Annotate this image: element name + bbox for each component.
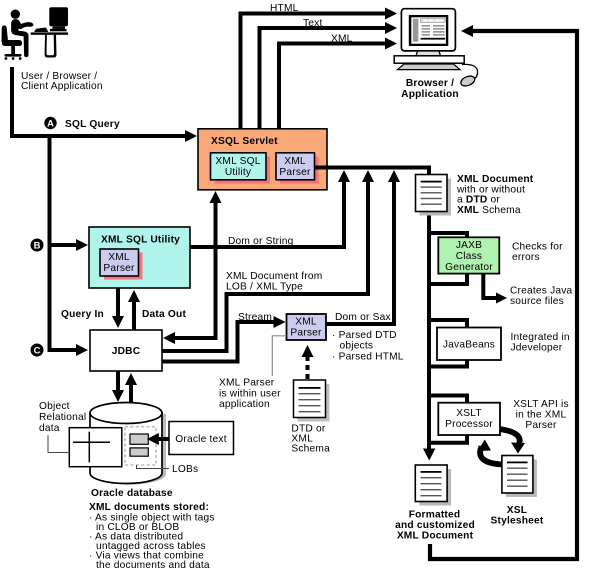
svg-text:Stylesheet: Stylesheet [491,516,544,527]
arrow up 1 (Dom or String) [342,177,346,247]
svg-text:XSLT: XSLT [456,408,482,419]
svg-text:SQL Query: SQL Query [65,119,120,130]
XML Parser (in servlet) [276,153,315,180]
svg-text:HTML: HTML [270,3,299,14]
svg-text:source files: source files [510,296,564,307]
svg-text:XML documents stored:: XML documents stored: [89,502,209,513]
svg-text:application: application [219,399,270,410]
Formatted doc icon [415,465,451,506]
svg-text:Class: Class [456,251,482,262]
svg-text:Creates Java: Creates Java [510,286,573,297]
svg-text:Formatted: Formatted [409,510,461,521]
svg-text:Relational: Relational [39,412,86,423]
svg-text:XML Parser: XML Parser [219,378,275,389]
svg-text:Schema: Schema [291,444,330,455]
svg-text:XML: XML [108,252,130,263]
svg-text:LOBs: LOBs [172,464,198,475]
svg-text:Oracle database: Oracle database [91,488,173,499]
wire: XML line [277,42,281,130]
wire: Text line [258,26,262,129]
svg-text:the documents and data: the documents and data [96,560,210,571]
svg-text:Data Out: Data Out [142,309,186,320]
label LOBs + callout [137,465,170,469]
svg-text:Client Application: Client Application [21,81,103,92]
JAXB bracket [429,233,467,284]
svg-text:XML Document: XML Document [397,531,474,542]
svg-text:XML: XML [295,317,317,328]
arrow: Query In (down) [116,288,120,321]
svg-text:errors: errors [512,252,540,263]
svg-text:B: B [34,240,41,251]
svg-text:is within user: is within user [219,388,281,399]
shadow utility [215,157,271,184]
svg-text:Parser: Parser [525,420,557,431]
XML SQL Utility (in servlet) [211,153,267,180]
arrows JDBC-database [116,371,120,395]
svg-text:objects: objects [340,341,374,352]
arrow: Data Out (up) [132,297,136,330]
svg-text:LOB / XML Type: LOB / XML Type [226,282,303,293]
svg-text:Text: Text [303,18,322,29]
svg-text:Utility: Utility [225,167,252,178]
XSQL Servlet box [198,129,327,190]
DTD or XML Schema doc icon [294,380,330,422]
wire: user vertical [10,67,14,138]
svg-text:JAXB: JAXB [456,240,482,251]
svg-text:Query In: Query In [61,309,104,320]
wire: left branch vertical to B and C [48,134,52,352]
svg-text:XSQL Servlet: XSQL Servlet [211,136,278,147]
svg-text:Integrated in: Integrated in [511,332,570,343]
svg-text:Object: Object [39,401,70,412]
table box with cross [69,428,122,467]
svg-text:XSLT API is: XSLT API is [513,399,569,410]
XML Document icon (right) [416,175,452,216]
node C badge [31,344,44,357]
arrowhead into servlet [185,130,197,142]
svg-text:Jdeveloper: Jdeveloper [511,343,563,354]
svg-text:XML: XML [284,156,306,167]
svg-text:Parser: Parser [290,328,322,339]
wire: servlet-JDBC double arrow [214,198,218,336]
wire: servlet to right main vertical [315,166,432,170]
svg-text:Dom or Sax: Dom or Sax [335,312,391,323]
svg-text:XML Document from: XML Document from [226,271,322,282]
svg-text:Parser: Parser [279,167,311,178]
svg-text:XSL: XSL [507,505,527,516]
LOBs dashed rect [125,427,156,465]
JavaBeans bracket [429,320,467,367]
shadow parser [280,157,319,184]
svg-text:C: C [34,345,41,356]
svg-text:Application: Application [401,89,459,100]
svg-text:XML SQL Utility: XML SQL Utility [101,235,180,246]
svg-text:XML Schema: XML Schema [457,205,521,216]
svg-text:data: data [39,423,60,434]
svg-text:XML SQL: XML SQL [215,156,260,167]
XSLT Processor box [438,403,500,435]
svg-text:· Parsed HTML: · Parsed HTML [332,352,404,363]
wire: return path to browser (from Formatted doc bottom) [430,31,577,559]
svg-text:Parser: Parser [103,263,135,274]
svg-text:Stream: Stream [238,312,272,323]
svg-text:· Parsed DTD: · Parsed DTD [332,330,397,341]
svg-text:XML: XML [331,34,353,45]
arrow up 3 (Dom or Sax) [392,177,396,326]
svg-text:in the XML: in the XML [516,410,567,421]
arrow up 2 (XML Document from LOB / XML Type) [366,177,370,296]
browser icon [394,9,477,88]
svg-text:Checks for: Checks for [512,242,563,253]
node B badge [31,239,44,252]
database cylinder [90,403,166,485]
XML SQL Utility box (standalone) [89,227,190,288]
svg-text:JavaBeans: JavaBeans [443,340,495,351]
svg-text:Generator: Generator [445,262,493,273]
callout line: XML Parser is within user application [272,336,286,376]
XSLT bracket [429,396,467,443]
user at desk icon [1,7,68,60]
svg-text:Oracle text: Oracle text [175,434,226,445]
Oracle text box [169,422,234,455]
curved arrows XSLT <-> XSL [500,429,520,444]
JAXB Class Generator box [438,237,499,273]
svg-text:A: A [47,118,54,129]
svg-text:Processor: Processor [445,419,493,430]
arrow: Oracle text to LOB [158,437,169,441]
svg-text:and customized: and customized [395,520,475,531]
arrow: Creates Java source files [483,274,498,298]
wire: SQL Query horizontal [10,134,186,138]
svg-text:JDBC: JDBC [112,346,141,357]
dashed arrow: DTD doc to XML Parser [306,352,310,379]
XML Parser box (user app) [287,314,327,340]
wire Dom or String horizontal [190,245,346,249]
node A badge [44,117,56,129]
JavaBeans box [437,328,501,361]
arrow B into XML SQL Utility [51,243,77,247]
svg-text:Browser /: Browser / [406,78,454,89]
svg-text:Dom or String: Dom or String [228,236,294,247]
wire: Stream [162,360,240,364]
wire: HTML line [239,12,243,130]
arrow C into JDBC [51,348,77,352]
XSL Stylesheet doc icon [502,456,537,498]
JDBC box [90,330,162,371]
